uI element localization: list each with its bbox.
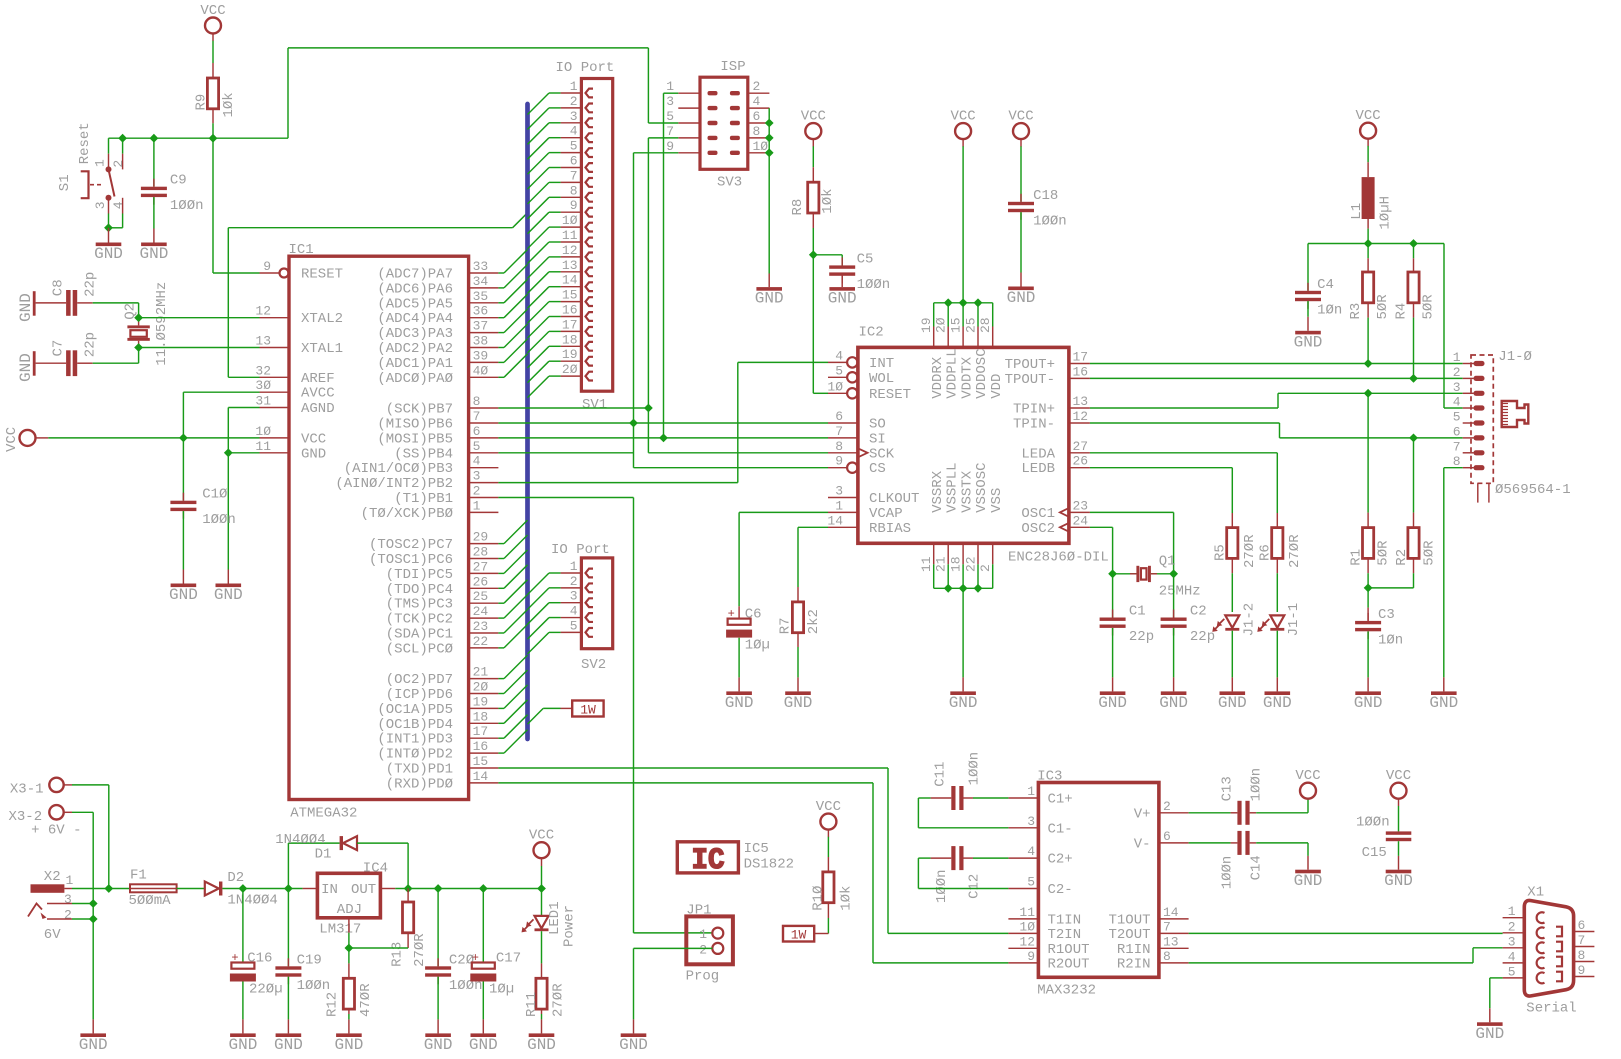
svg-text:IC: IC <box>692 844 725 878</box>
svg-text:GND: GND <box>139 245 168 263</box>
svg-text:2: 2 <box>699 942 707 957</box>
svg-text:2: 2 <box>570 574 578 589</box>
svg-text:26: 26 <box>473 574 489 589</box>
wire C4 to ground <box>1307 301 1309 317</box>
svg-text:7: 7 <box>1453 439 1461 454</box>
IC3 right pins with numbers <box>1159 812 1189 814</box>
svg-text:2: 2 <box>1508 919 1516 934</box>
svg-text:Power: Power <box>562 905 578 947</box>
IC2 top power pins (VDD) <box>933 327 935 348</box>
ground (ISP) <box>756 287 782 291</box>
wire C1 to ground <box>1112 628 1114 677</box>
wire RXD net (PD0) <box>498 782 873 784</box>
svg-text:24: 24 <box>1073 513 1089 528</box>
ground (R12) <box>348 1019 350 1033</box>
svg-text:VCC: VCC <box>950 109 975 125</box>
junction S1 pins 3/4 <box>104 223 113 232</box>
svg-text:18: 18 <box>949 556 964 572</box>
svg-text:26: 26 <box>1073 454 1089 469</box>
ground (C8, rotated) <box>33 291 36 316</box>
svg-text:VCC: VCC <box>816 799 841 815</box>
wire TPIN+ net <box>1090 407 1278 409</box>
svg-text:V-: V- <box>1134 836 1151 852</box>
svg-text:(ADC4)PA4: (ADC4)PA4 <box>377 311 453 327</box>
ground below S1 <box>108 228 110 243</box>
svg-text:R13: R13 <box>390 942 406 967</box>
wire SI net (PB5/MOSI) <box>498 437 828 439</box>
ground (R7) <box>797 677 799 691</box>
svg-text:(SS)PB4: (SS)PB4 <box>394 446 453 462</box>
wire TPOUT+ net <box>1090 363 1463 365</box>
svg-text:GND: GND <box>17 293 35 322</box>
wire C16 to ground <box>242 982 244 1020</box>
power symbol VCC (output) <box>534 842 550 858</box>
svg-text:DS1822: DS1822 <box>744 857 794 873</box>
svg-text:1: 1 <box>93 159 108 167</box>
svg-text:39: 39 <box>473 348 489 363</box>
connector SV2 IO Port <box>581 558 612 649</box>
svg-text:1Øk: 1Øk <box>820 188 836 213</box>
wire SO net (PB6/MISO) <box>498 422 828 424</box>
junction ISP pin10 <box>765 148 774 157</box>
svg-text:(ADCØ)PAØ: (ADCØ)PAØ <box>377 371 453 387</box>
svg-text:1ØØn: 1ØØn <box>1219 856 1235 890</box>
pad X3-1 <box>49 778 63 792</box>
ground (C18) <box>1020 273 1022 287</box>
svg-text:C5: C5 <box>857 251 874 267</box>
svg-text:AVCC: AVCC <box>301 386 335 402</box>
wire VCC to IC2 VDD bracket <box>962 146 964 302</box>
wire VCC output rail <box>395 888 541 890</box>
ground (C1) <box>1112 677 1114 691</box>
svg-text:OSC2: OSC2 <box>1021 521 1055 537</box>
wires SV1 pins to bus <box>549 92 561 94</box>
svg-text:5: 5 <box>1027 875 1035 890</box>
wire C9 to ground <box>153 197 155 228</box>
wire OSC2 net <box>1090 526 1113 528</box>
svg-text:1N4ØØ4: 1N4ØØ4 <box>275 832 325 848</box>
svg-text:(INT1)PD3: (INT1)PD3 <box>377 732 453 748</box>
junction TPIN-/R2 <box>1409 434 1418 443</box>
ground (C2) <box>1173 677 1175 691</box>
svg-text:IC3: IC3 <box>1037 769 1062 785</box>
junction VSS bracket 3 <box>974 584 983 593</box>
svg-text:22p: 22p <box>83 332 99 357</box>
svg-text:7: 7 <box>1163 919 1171 934</box>
wire C3 to ground <box>1367 631 1369 677</box>
svg-text:2Ø: 2Ø <box>473 680 489 695</box>
crystal Q1 25MHz <box>1130 573 1136 575</box>
svg-text:18: 18 <box>473 709 489 724</box>
svg-text:GND: GND <box>94 245 123 263</box>
svg-text:C3: C3 <box>1378 607 1395 623</box>
svg-text:1Øn: 1Øn <box>1317 302 1342 318</box>
svg-text:(INTØ)PD2: (INTØ)PD2 <box>377 747 453 763</box>
svg-text:XTAL1: XTAL1 <box>301 341 343 357</box>
svg-text:(ADC3)PA3: (ADC3)PA3 <box>377 326 453 342</box>
svg-text:GND: GND <box>469 1036 498 1054</box>
capacitor C11 100n <box>951 786 955 810</box>
svg-text:(ADC6)PA6: (ADC6)PA6 <box>377 281 453 297</box>
pad X3-2 <box>49 805 63 819</box>
svg-text:1Øk: 1Øk <box>839 886 855 911</box>
bus B$1 (blue) <box>525 104 530 739</box>
wire R2 to TPIN- <box>1413 438 1415 513</box>
fuse F1 500mA <box>130 884 177 892</box>
ground (AGND column) <box>227 570 229 584</box>
wire XTAL1 net <box>139 347 260 349</box>
svg-text:6: 6 <box>1578 918 1586 933</box>
svg-text:8: 8 <box>570 183 578 198</box>
wire LED J1-2 to ground <box>1231 631 1233 678</box>
svg-text:34: 34 <box>473 274 489 289</box>
svg-text:8: 8 <box>473 394 481 409</box>
IC2 OSC1 arrow mark <box>1060 508 1069 517</box>
svg-text:X1: X1 <box>1527 884 1544 900</box>
junction C17 <box>479 884 488 893</box>
junction SCK/ISP7 <box>644 404 653 413</box>
capacitor C1 22p <box>1112 610 1114 618</box>
svg-text:GND: GND <box>1294 872 1323 890</box>
svg-text:MAX3232: MAX3232 <box>1037 983 1096 999</box>
svg-text:1W: 1W <box>791 928 807 943</box>
svg-text:5: 5 <box>666 109 674 124</box>
svg-text:2: 2 <box>111 160 126 168</box>
wire XTAL2 net <box>139 317 260 319</box>
svg-text:GND: GND <box>169 586 198 604</box>
svg-text:3: 3 <box>473 469 481 484</box>
svg-text:GND: GND <box>228 1036 257 1054</box>
svg-text:VCC: VCC <box>4 427 20 452</box>
junction R9/rail <box>209 134 218 143</box>
ground (C16) <box>242 1019 244 1033</box>
svg-text:C1+: C1+ <box>1048 792 1073 808</box>
svg-text:5: 5 <box>473 439 481 454</box>
IC U2 ENC28J60-DIL (IC2) body <box>858 347 1069 543</box>
svg-text:(ADC5)PA5: (ADC5)PA5 <box>377 296 453 312</box>
ground (LED J1-1) <box>1276 677 1278 691</box>
junction C16 <box>239 884 248 893</box>
svg-text:1ØØn: 1ØØn <box>202 512 236 528</box>
svg-text:1: 1 <box>1027 784 1035 799</box>
svg-text:2: 2 <box>753 79 761 94</box>
svg-text:JP1: JP1 <box>686 903 711 919</box>
wire IC2 VSS bracket to ground <box>933 564 935 588</box>
svg-text:R2: R2 <box>1394 549 1410 566</box>
svg-text:J1-2: J1-2 <box>1241 603 1257 637</box>
ground (C20) <box>437 1019 439 1033</box>
svg-text:16: 16 <box>562 303 578 318</box>
svg-text:C2: C2 <box>1190 604 1207 620</box>
svg-text:4: 4 <box>473 454 481 469</box>
wire X1 pin5 to ground <box>1490 977 1503 979</box>
wire SCK net (PB7) <box>498 407 648 409</box>
wire input rail <box>72 888 130 890</box>
svg-text:(ADC2)PA2: (ADC2)PA2 <box>377 341 453 357</box>
net flag 1W (bus) <box>572 701 603 717</box>
svg-text:7: 7 <box>666 124 674 139</box>
ground (C4) <box>1307 317 1309 331</box>
svg-text:ADJ: ADJ <box>337 902 362 918</box>
IC4 ADJ pin <box>348 918 350 933</box>
svg-text:AREF: AREF <box>301 371 335 387</box>
capacitor C12 100n <box>951 846 955 870</box>
svg-text:X3-1: X3-1 <box>10 781 44 797</box>
svg-text:24: 24 <box>473 604 489 619</box>
svg-text:5ØR: 5ØR <box>1421 294 1437 320</box>
wire X2 pin3 to junction <box>72 903 93 905</box>
svg-text:(TDI)PC5: (TDI)PC5 <box>386 567 453 583</box>
IC4 OUT pin <box>380 888 395 890</box>
svg-text:SCK: SCK <box>869 446 895 462</box>
junction ADJ/R12 <box>345 944 354 953</box>
ground (IC2 VSS) <box>962 677 964 691</box>
svg-text:11: 11 <box>919 556 934 572</box>
wire AREF net <box>228 376 259 378</box>
svg-text:1: 1 <box>699 927 707 942</box>
svg-text:IC2: IC2 <box>859 325 884 341</box>
svg-text:+ 6V -: + 6V - <box>31 822 81 838</box>
svg-text:17: 17 <box>473 724 489 739</box>
junction TPOUT+/R3 <box>1364 359 1373 368</box>
svg-text:L1: L1 <box>1349 203 1365 220</box>
svg-text:14: 14 <box>562 273 578 288</box>
svg-text:(SDA)PC1: (SDA)PC1 <box>386 627 453 643</box>
svg-text:TPOUT+: TPOUT+ <box>1005 357 1055 373</box>
svg-text:GND: GND <box>1354 694 1383 712</box>
inductor L1 10uH <box>1367 146 1369 162</box>
svg-text:3: 3 <box>1453 380 1461 395</box>
svg-text:R7: R7 <box>778 617 794 634</box>
resistor R12 470R <box>348 963 350 978</box>
capacitor C2 22p <box>1173 610 1175 618</box>
svg-text:7: 7 <box>1578 933 1586 948</box>
svg-text:GND: GND <box>214 586 243 604</box>
svg-text:C6: C6 <box>745 607 762 623</box>
junction X2 pin3 <box>89 899 98 908</box>
svg-text:GND: GND <box>1218 694 1247 712</box>
junction C9 top <box>150 134 159 143</box>
capacitor C13 100n <box>1189 812 1231 814</box>
svg-text:1ØØn: 1ØØn <box>170 198 204 214</box>
wire R1 to TPIN+ <box>1367 393 1369 512</box>
svg-text:VDD: VDD <box>989 374 1005 399</box>
junction Q1 right <box>1169 569 1178 578</box>
svg-text:6V: 6V <box>44 927 61 943</box>
resistor R10 10k <box>827 837 829 857</box>
RJ45 jack icon <box>1502 401 1529 427</box>
svg-text:VCAP: VCAP <box>869 506 903 522</box>
svg-text:GND: GND <box>619 1036 648 1054</box>
wire R1/R2 junction to C3 <box>1367 573 1369 588</box>
svg-text:C8: C8 <box>51 279 67 296</box>
svg-text:GND: GND <box>301 446 326 462</box>
wire C20 to ground <box>437 977 439 1020</box>
svg-text:6: 6 <box>1163 829 1171 844</box>
svg-text:2: 2 <box>1163 799 1171 814</box>
svg-text:27ØR: 27ØR <box>550 983 566 1017</box>
svg-text:3: 3 <box>1508 934 1516 949</box>
svg-text:19: 19 <box>562 347 578 362</box>
svg-text:21: 21 <box>934 556 949 572</box>
svg-text:1: 1 <box>666 79 674 94</box>
svg-text:GND: GND <box>274 1036 303 1054</box>
svg-text:GND: GND <box>1007 289 1036 307</box>
svg-text:8: 8 <box>753 124 761 139</box>
junction MOSI/ISP1 <box>659 434 668 443</box>
junction ISP pin6 <box>765 119 774 128</box>
svg-text:4: 4 <box>1027 844 1035 859</box>
svg-text:1ØØn: 1ØØn <box>857 277 891 293</box>
svg-text:33: 33 <box>473 259 489 274</box>
svg-text:12: 12 <box>1073 409 1089 424</box>
svg-text:(AINØ/INT2)PB2: (AINØ/INT2)PB2 <box>335 476 453 492</box>
power symbol VCC (left) <box>20 430 36 446</box>
svg-text:2: 2 <box>473 484 481 499</box>
svg-text:14: 14 <box>827 513 843 528</box>
svg-text:1Øµ: 1Øµ <box>489 982 514 998</box>
svg-text:RBIAS: RBIAS <box>869 521 911 537</box>
wire C10 to ground <box>182 511 184 569</box>
ground (C5) <box>841 273 843 287</box>
wire TPOUT- net <box>1090 377 1463 379</box>
wire PD5 1W net to bus <box>528 708 544 724</box>
wire C2 to ground <box>1173 628 1175 677</box>
wire F1 to D2 <box>177 888 205 890</box>
svg-text:GND: GND <box>424 1036 453 1054</box>
svg-text:9: 9 <box>263 259 271 274</box>
wire OSC1/OSC2 crystal row <box>1113 573 1137 575</box>
svg-text:1Ø: 1Ø <box>1019 919 1035 934</box>
svg-text:X2: X2 <box>44 869 61 885</box>
svg-text:(TOSC1)PC6: (TOSC1)PC6 <box>369 552 453 568</box>
svg-text:R5: R5 <box>1213 544 1229 561</box>
ground (X2) <box>92 1019 94 1033</box>
svg-text:8: 8 <box>1453 454 1461 469</box>
svg-text:R8: R8 <box>790 199 806 216</box>
svg-text:21: 21 <box>473 665 489 680</box>
svg-text:GND: GND <box>79 1036 108 1054</box>
svg-text:SO: SO <box>869 417 886 433</box>
svg-text:(SCK)PB7: (SCK)PB7 <box>386 402 453 418</box>
svg-text:22p: 22p <box>83 272 99 297</box>
wire JP1 pin2 to ground <box>634 947 713 949</box>
wire TPIN- net <box>1090 422 1280 424</box>
svg-text:Serial: Serial <box>1526 1001 1576 1017</box>
svg-text:SV1: SV1 <box>582 397 607 413</box>
wire J1 pin8 to ground <box>1444 467 1463 469</box>
svg-text:R12: R12 <box>325 992 341 1017</box>
svg-text:13: 13 <box>562 258 578 273</box>
connector J1-0 0569564-1 (dashed) <box>1471 355 1493 483</box>
svg-text:OUT: OUT <box>351 882 376 898</box>
power symbol VCC (L1) <box>1360 123 1376 139</box>
svg-text:VCC: VCC <box>529 828 554 844</box>
svg-text:27: 27 <box>473 559 489 574</box>
LED LED1 Power <box>541 889 543 916</box>
wire C1 column <box>1112 574 1114 618</box>
svg-text:GND: GND <box>17 353 35 382</box>
svg-text:6: 6 <box>835 409 843 424</box>
svg-text:1Ø: 1Ø <box>255 424 271 439</box>
svg-text:(TØ/XCK)PBØ: (TØ/XCK)PBØ <box>361 506 453 522</box>
resistor R1 50R <box>1363 528 1374 559</box>
svg-text:XTAL2: XTAL2 <box>301 311 343 327</box>
wire C12/C2+ C2- loop <box>973 857 1008 859</box>
net flag 1W (R10) <box>814 933 828 935</box>
svg-text:C12: C12 <box>966 874 982 899</box>
svg-text:D1: D1 <box>315 847 332 863</box>
svg-text:GND: GND <box>527 1036 556 1054</box>
IC U4 LM317 (IC4) body <box>317 873 380 918</box>
svg-text:16: 16 <box>1073 364 1089 379</box>
svg-text:J1-Ø: J1-Ø <box>1498 349 1532 365</box>
svg-text:(TOSC2)PC7: (TOSC2)PC7 <box>369 537 453 553</box>
svg-text:5ØR: 5ØR <box>1422 540 1438 566</box>
svg-text:TPOUT-: TPOUT- <box>1005 372 1055 388</box>
svg-text:15: 15 <box>473 754 489 769</box>
capacitor C15 100n <box>1398 798 1400 806</box>
svg-text:(TCK)PC2: (TCK)PC2 <box>386 612 453 628</box>
svg-text:C17: C17 <box>496 951 521 967</box>
ground (C14) <box>1295 870 1321 874</box>
svg-text:8: 8 <box>1163 949 1171 964</box>
power symbol VCC (R9 pullup) <box>205 18 221 34</box>
svg-text:18: 18 <box>562 332 578 347</box>
ground below C9 <box>153 229 155 243</box>
svg-text:D2: D2 <box>227 870 244 886</box>
svg-text:1ØØn: 1ØØn <box>1249 768 1265 802</box>
svg-text:SV2: SV2 <box>581 657 606 673</box>
wire LEDA net <box>1090 452 1277 454</box>
svg-text:3: 3 <box>666 94 674 109</box>
switch S1 Reset <box>108 138 110 154</box>
svg-text:3: 3 <box>570 589 578 604</box>
wire R5 to LED J1-2 <box>1231 573 1233 612</box>
diode D1 1N4004 <box>287 843 289 888</box>
svg-text:VCC: VCC <box>1355 108 1380 124</box>
svg-text:RESET: RESET <box>869 387 911 403</box>
wire R2IN to X1 pin3 <box>1189 962 1473 964</box>
wires SV2 pins to bus <box>549 572 561 574</box>
junction ISP pin8 <box>765 134 774 143</box>
svg-text:1: 1 <box>570 79 578 94</box>
IC2 left pins with numbers <box>828 361 847 363</box>
wire D1 to OUT <box>357 842 408 844</box>
svg-text:R3: R3 <box>1348 303 1364 320</box>
connector SV1 IO Port <box>581 79 612 392</box>
capacitor C5 100n <box>841 255 843 266</box>
svg-text:1Ø: 1Ø <box>827 379 843 394</box>
wire ISP ground side <box>768 108 770 273</box>
svg-text:7: 7 <box>473 409 481 424</box>
wire ISP pin5 (RESET) <box>648 122 678 124</box>
svg-text:Ø569564-1: Ø569564-1 <box>1495 482 1571 498</box>
svg-text:1ØµH: 1ØµH <box>1377 196 1393 230</box>
wire T2OUT to X1 pin2 <box>1189 932 1503 934</box>
svg-text:Reset: Reset <box>77 122 93 164</box>
connector SV3 ISP <box>700 77 748 169</box>
svg-text:IO Port: IO Port <box>551 542 610 558</box>
svg-text:5: 5 <box>570 618 578 633</box>
svg-text:22Øµ: 22Øµ <box>249 982 283 998</box>
svg-text:T2IN: T2IN <box>1048 927 1082 943</box>
junction MISO/ISP9 <box>629 419 638 428</box>
svg-text:3: 3 <box>64 892 72 907</box>
svg-text:6: 6 <box>1453 424 1461 439</box>
svg-text:9: 9 <box>1027 949 1035 964</box>
svg-text:(TXD)PD1: (TXD)PD1 <box>386 762 453 778</box>
